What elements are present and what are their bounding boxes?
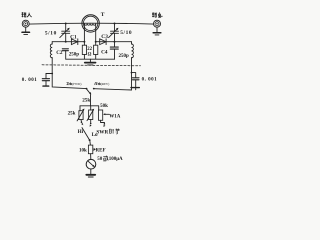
resistor 10k REF [88,145,92,154]
wire transformer left leg [83,24,85,45]
transformer T [82,15,99,32]
trimmer capacitor C3 5/10 (right) [109,24,119,42]
output connector J2 [154,20,161,27]
svg-text:C1: C1 [70,34,77,40]
svg-text:250p: 250p [119,54,130,59]
svg-text:C4: C4 [101,50,108,56]
wire right drop to switch [94,58,136,90]
trimmer capacitor C1 5/10 (left) [60,24,70,42]
diode D2 (at C3) [95,39,116,45]
switch lever (Hi/Lo/SWR) [82,128,91,146]
label 调节 (of SWR调节) strokes [109,129,119,134]
svg-text:5/10: 5/10 [45,31,57,37]
svg-text:Hi: Hi [78,129,84,135]
ground (meter) [86,169,95,177]
svg-text:5/10: 5/10 [120,30,132,36]
node right trimmer tap [114,23,116,25]
wire branch bar [80,105,99,107]
svg-text:(FWD): (FWD) [72,82,81,86]
resistor 22 ohm right [94,45,98,54]
potentiometer 50k W1A [99,106,110,127]
diode D1 (at C1) [65,39,86,45]
capacitor 0.001 left feedthrough [42,73,53,87]
REF pointer [93,148,96,151]
svg-text:100μA: 100μA [109,157,123,162]
wire left drop to switch [52,58,86,89]
svg-text:22: 22 [87,47,92,52]
svg-text:REF: REF [96,149,106,154]
svg-text:T: T [101,12,105,18]
svg-text:0. 001: 0. 001 [142,77,158,82]
trimmer pot 25k (Hi leg) [77,106,84,125]
svg-text:25k: 25k [68,111,76,116]
capacitor C2 250p [62,49,68,51]
label 反向(REV) [95,82,101,85]
svg-text:(REV): (REV) [101,82,110,86]
svg-text:C3: C3 [101,34,108,40]
wire main line [29,22,153,25]
input connector J1 [22,20,29,27]
meter M 50/100uA [86,159,96,169]
label 正向(FWD) [66,82,71,85]
resistor 22 ohm left [82,45,86,54]
switch lever (FWD/REV) [87,89,91,106]
wire ground rail [66,51,115,60]
svg-text:SWR: SWR [96,129,108,135]
svg-text:W1A: W1A [109,115,121,120]
trimmer pot (Lo leg) [87,106,94,127]
svg-text:25k: 25k [82,97,90,103]
wire to meter [90,154,92,160]
label 或 (of 50或100uA) strokes [103,156,108,161]
svg-text:10k: 10k [79,149,87,154]
capacitor C4 250p [110,42,118,60]
svg-text:0. 001: 0. 001 [22,78,38,83]
wire to left choke [52,41,65,43]
inductor right choke [132,42,134,58]
label 输出 (output) strokes [152,12,163,17]
svg-text:50: 50 [97,157,103,162]
node left trimmer tap [65,23,67,25]
svg-text:50k: 50k [100,104,108,109]
ground (rail center) [85,59,96,65]
capacitor 0.001 right feedthrough [131,78,139,88]
inductor left choke [50,42,52,58]
ground (input connector) [22,27,30,34]
svg-text:C2: C2 [56,50,63,56]
ground (output connector) [153,27,161,35]
label 输入 (input) strokes [22,12,32,17]
svg-text:250p: 250p [69,53,80,58]
wire transformer right leg [95,24,97,45]
svg-text:Ω: Ω [88,53,92,58]
shield dashed line [42,65,141,66]
wire to right choke [115,41,132,43]
